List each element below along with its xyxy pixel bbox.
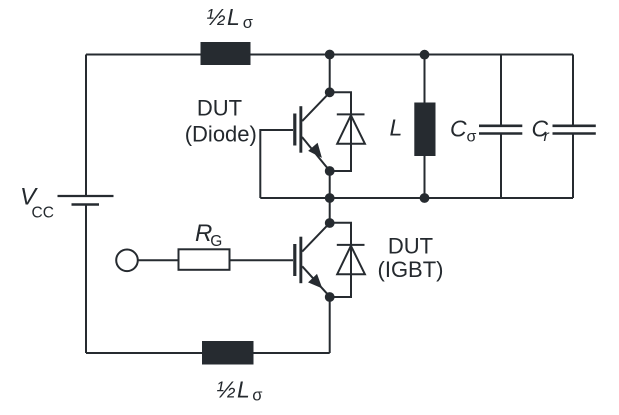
label 1/2 L-sigma (bottom): [217, 377, 263, 405]
node: top rail / L branch junction: [420, 50, 430, 60]
label VCC: [20, 184, 54, 222]
wire: upper emitter to mid rail: [329, 171, 331, 198]
wire: bottom rail: [86, 352, 330, 354]
wire: left rail (bottom section, VCC- to bottom rail): [85, 205, 87, 354]
node: lower collector junction: [325, 218, 335, 228]
diode, antiparallel with lower IGBT (DUT IGBT): [330, 223, 365, 297]
node: top rail / DUT column junction: [325, 50, 335, 60]
svg-text:½: ½: [207, 4, 226, 30]
label 1/2 L-sigma (top): [207, 4, 253, 32]
wire: top rail: [86, 54, 573, 56]
node: mid rail / DUT column junction: [325, 193, 335, 203]
wire: RG to lower gate: [230, 259, 294, 261]
node: upper emitter junction: [325, 166, 335, 176]
diode, antiparallel with upper IGBT (DUT Diode): [330, 92, 365, 171]
wire: capacitor Cs branch (above plates): [500, 55, 502, 126]
svg-text:(IGBT): (IGBT): [378, 257, 444, 282]
label DUT (IGBT): [378, 234, 444, 283]
wire: gate drive to RG: [138, 259, 179, 261]
node: upper collector junction: [325, 87, 335, 97]
capacitor Cs: [479, 126, 522, 134]
wire: capacitor Cr branch (below plates): [572, 134, 574, 198]
label DUT (Diode): [185, 96, 257, 147]
gate drive source (circle terminal): [116, 249, 138, 271]
wire: mid rail to lower collector: [329, 198, 331, 223]
inductor L: [414, 103, 435, 157]
label RG: [195, 220, 222, 250]
battery VCC: [58, 196, 114, 205]
label Cr: [532, 115, 550, 145]
inductor 1/2 L-sigma (top): [201, 42, 251, 65]
svg-text:σ: σ: [243, 14, 253, 32]
svg-text:½: ½: [217, 377, 236, 403]
svg-text:L: L: [237, 377, 250, 403]
wire: capacitor Cs branch (below plates): [500, 134, 502, 198]
wire: upper gate tie to mid rail: [260, 130, 293, 198]
svg-text:G: G: [210, 233, 222, 250]
transistor upper IGBT (DUT Diode): [293, 93, 329, 171]
wire: left rail (top section, VCC+ to top rail): [85, 55, 87, 197]
svg-text:C: C: [450, 115, 467, 141]
node: mid rail / L branch junction: [420, 193, 430, 203]
wire: capacitor Cr branch (above plates): [572, 55, 574, 126]
wire: mid rail: [260, 197, 573, 199]
svg-text:DUT: DUT: [388, 234, 433, 259]
label Cs: [450, 115, 477, 145]
svg-text:DUT: DUT: [197, 96, 242, 121]
node: lower emitter junction: [325, 292, 335, 302]
inductor 1/2 L-sigma (bottom): [202, 341, 254, 365]
svg-text:σ: σ: [467, 129, 477, 146]
capacitor Cr: [553, 126, 596, 134]
svg-text:CC: CC: [32, 205, 54, 222]
svg-text:σ: σ: [252, 387, 262, 405]
svg-text:L: L: [390, 114, 403, 140]
svg-text:(Diode): (Diode): [185, 121, 257, 146]
wire: inductor L branch: [424, 55, 426, 199]
transistor lower IGBT (DUT IGBT): [293, 223, 330, 296]
svg-text:r: r: [544, 128, 550, 145]
resistor RG: [179, 249, 230, 269]
wire: DUT column, top rail to upper collector: [329, 55, 331, 93]
svg-text:L: L: [227, 4, 240, 30]
wire: lower emitter to bottom rail: [329, 297, 331, 353]
